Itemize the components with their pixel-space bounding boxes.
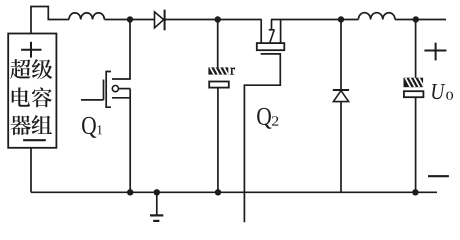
text 器 bbox=[10, 115, 30, 135]
node: U0 bottom junction bbox=[412, 189, 418, 195]
text 级 bbox=[32, 59, 52, 79]
wire: D1 cathode to Q2 source bbox=[165, 19, 262, 21]
resistor r (hatched) bbox=[208, 67, 228, 74]
capacitor U0 positive plate (hatched) bbox=[404, 78, 424, 88]
label Q2 bbox=[257, 108, 271, 129]
diode D1 bbox=[155, 12, 164, 28]
wire: L2 to output terminal bbox=[395, 19, 446, 21]
wire: battery negative to bottom rail bbox=[30, 148, 32, 193]
supercapacitor bank box bbox=[8, 34, 56, 148]
freewheel diode D2 bbox=[340, 20, 342, 91]
text 组 bbox=[32, 115, 52, 134]
node: output capacitor junction bbox=[413, 16, 419, 22]
node: snubber bottom junction bbox=[215, 189, 221, 195]
wire: U0 to bottom rail bbox=[415, 97, 417, 192]
label Q1 bbox=[82, 117, 96, 138]
snubber branch wire from rail bbox=[217, 20, 219, 68]
battery minus sign bbox=[23, 139, 46, 141]
wire: battery positive to L1 bbox=[31, 7, 69, 34]
output capacitor U0 branch wire bbox=[415, 20, 417, 78]
bottom rail bbox=[31, 191, 437, 193]
inductor L2 bbox=[358, 13, 395, 20]
node: Q1 source junction bbox=[127, 189, 133, 195]
text 容 bbox=[32, 87, 52, 107]
wire: snubber to bottom rail bbox=[217, 88, 219, 193]
capacitor U0 negative plate bbox=[404, 91, 424, 97]
text 电 bbox=[12, 87, 30, 106]
wire: top rail Q2 drain to L2 bbox=[271, 19, 358, 21]
inductor L1 bbox=[69, 13, 104, 20]
capacitor plate (snubber) bbox=[209, 82, 229, 88]
battery plus sign bbox=[21, 49, 41, 51]
label U0 bbox=[432, 84, 445, 99]
node: Q1 drain junction bbox=[127, 16, 133, 22]
text 超 bbox=[10, 59, 30, 79]
transistor Q2 bbox=[244, 20, 284, 223]
wire: L1 to diode D1 anode bbox=[104, 19, 154, 21]
node: ground junction bbox=[154, 189, 160, 195]
output minus sign bbox=[428, 175, 449, 177]
node: RC snubber junction bbox=[215, 16, 221, 22]
ground bbox=[156, 192, 158, 215]
node: freewheel diode junction bbox=[338, 16, 344, 22]
output plus sign bbox=[424, 50, 446, 52]
transistor Q1 bbox=[81, 20, 131, 193]
label r bbox=[230, 68, 234, 75]
